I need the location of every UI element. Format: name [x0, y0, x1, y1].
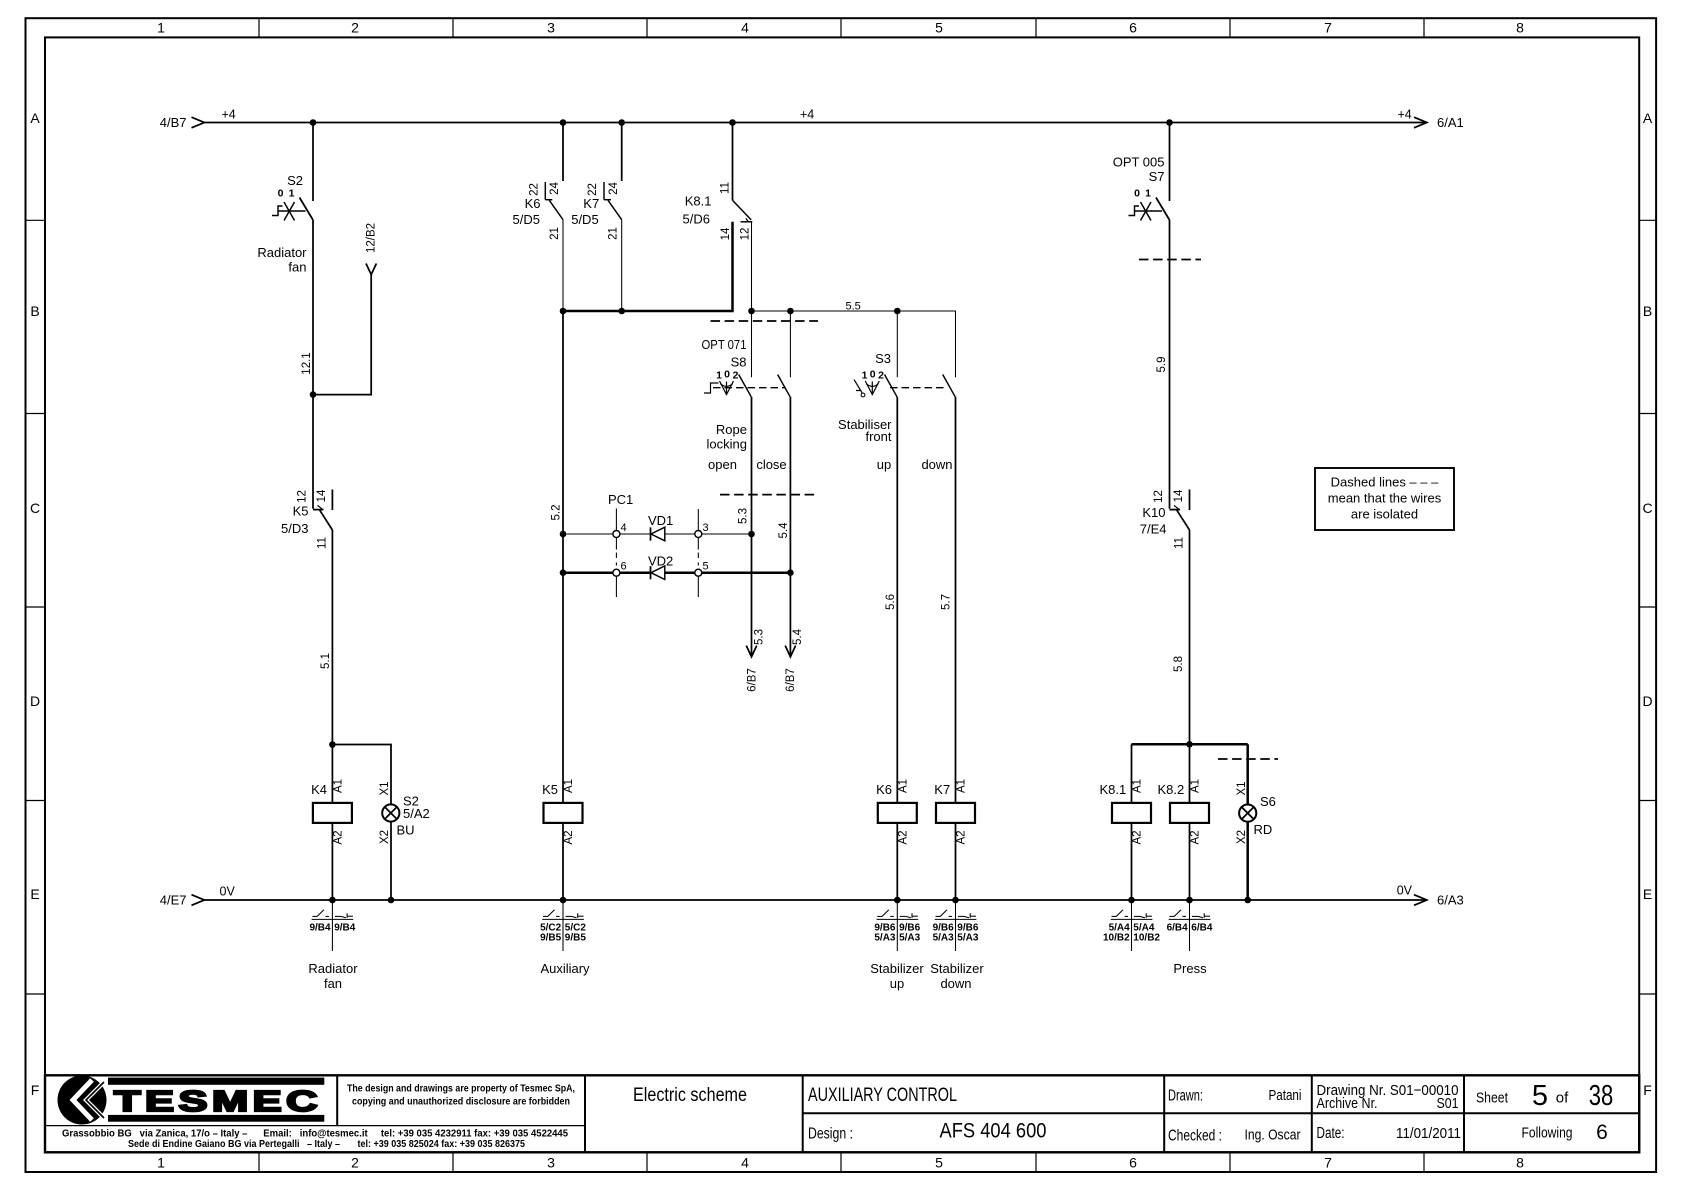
wire +4 supply rail [205, 122, 1427, 124]
junction 0V / lamp S2 [388, 897, 395, 904]
svg-text:6: 6 [1129, 20, 1137, 36]
svg-text:14: 14 [316, 489, 328, 502]
svg-text:5/A4: 5/A4 [1133, 922, 1155, 933]
svg-text:A1: A1 [1132, 779, 1144, 793]
svg-text:8: 8 [1516, 20, 1524, 36]
svg-text:7/E4: 7/E4 [1140, 522, 1167, 537]
svg-text:22: 22 [529, 183, 541, 196]
svg-text:7: 7 [1324, 1155, 1332, 1171]
svg-text:A1: A1 [897, 779, 909, 793]
svg-text:close: close [756, 457, 786, 472]
diode VD1 [651, 527, 665, 541]
wire branch to lamp S2 [332, 745, 391, 805]
svg-text:Sede di Endine Gaiano BG via P: Sede di Endine Gaiano BG via Pertegalli … [128, 1138, 525, 1150]
svg-text:4: 4 [741, 1155, 749, 1171]
junction VD1 row / net 5.3 [748, 531, 755, 538]
svg-text:2: 2 [878, 370, 884, 382]
wire K5 contact to K4 coil (net 5.1) [331, 530, 333, 745]
svg-text:0: 0 [724, 369, 730, 381]
junction 0V / K8.1 [1128, 897, 1135, 904]
svg-text:TESMEC: TESMEC [114, 1086, 322, 1118]
wire to sheet 12/B2 [313, 275, 371, 395]
junction +4 / K7 [618, 119, 625, 126]
wire +4 to contact K8.1 pin 11 [732, 123, 734, 201]
svg-text:12: 12 [297, 490, 309, 503]
wire K8.2 to 0V [1189, 823, 1191, 900]
wire branch to K8.1 [1131, 744, 1133, 803]
svg-text:down: down [921, 457, 952, 472]
PC1 terminal 5 [695, 569, 702, 597]
svg-text:9/B6: 9/B6 [957, 922, 979, 933]
PC1 terminal 4 [613, 509, 620, 566]
svg-text:A2: A2 [897, 830, 909, 844]
svg-text:Drawn:: Drawn: [1168, 1088, 1203, 1105]
wire S3 pole 2 to K7 coil (net 5.7) [955, 397, 957, 803]
svg-text:up: up [890, 976, 904, 991]
wire K8.1 pin 14 to K6/K7/PC1 (thick net) [563, 222, 733, 311]
wire S8 pole 2 to 6/B7 (net 5.4) [789, 397, 791, 657]
svg-text:5.7: 5.7 [941, 594, 953, 610]
junction 0V / K5 [560, 897, 567, 904]
svg-text:6/A3: 6/A3 [1437, 893, 1464, 908]
svg-text:2: 2 [351, 1155, 359, 1171]
svg-text:Auxiliary: Auxiliary [540, 961, 590, 976]
svg-text:9/B6: 9/B6 [933, 922, 955, 933]
svg-text:9/B6: 9/B6 [874, 922, 896, 933]
junction +4 / K6 [560, 119, 567, 126]
svg-text:5/D3: 5/D3 [281, 521, 308, 536]
svg-text:5.4: 5.4 [778, 522, 790, 539]
Tesmec logo [58, 1076, 325, 1125]
dashed isolation line (above S6) [1218, 758, 1278, 760]
wire to K4 coil [331, 745, 333, 803]
svg-text:5.4: 5.4 [792, 628, 804, 645]
switch S7 (press option, cam selector) [1129, 198, 1170, 221]
svg-text:5/C2: 5/C2 [540, 922, 562, 933]
svg-text:1: 1 [157, 20, 165, 36]
svg-text:locking: locking [707, 437, 747, 452]
contact K5 (12-14-11, NC shown) ref 5/D3 [313, 490, 332, 531]
wire K6 pin 21 to bus [562, 220, 564, 311]
svg-text:The design and drawings are pr: The design and drawings are property of … [347, 1083, 575, 1095]
junction bus 5.5 / S8 pole 1 [748, 308, 755, 315]
svg-text:BU: BU [397, 823, 415, 838]
svg-text:1: 1 [862, 370, 868, 382]
wire S8 pole 1 to 6/B7 (net 5.3) [751, 397, 753, 657]
svg-text:1: 1 [157, 1155, 165, 1171]
wire K7 to 0V [955, 823, 957, 900]
svg-text:6: 6 [1596, 1121, 1608, 1144]
wire VD1 row (PC1 4-3) [566, 533, 751, 535]
svg-text:0: 0 [870, 369, 876, 381]
svg-text:11: 11 [719, 182, 731, 194]
junction S2 branch / 12B2 [310, 391, 317, 398]
wire +4 to switch S2 [312, 123, 314, 202]
svg-text:Rope: Rope [716, 422, 747, 437]
svg-text:5/D5: 5/D5 [571, 212, 598, 227]
svg-text:Electric scheme: Electric scheme [633, 1085, 747, 1106]
svg-text:Radiator: Radiator [257, 245, 307, 260]
svg-text:K8.2: K8.2 [1157, 782, 1184, 797]
svg-text:K4: K4 [311, 782, 327, 797]
K6 contact cross-references [874, 900, 920, 951]
svg-text:K6: K6 [876, 782, 892, 797]
svg-text:10/B2: 10/B2 [1103, 933, 1130, 944]
wire lamp S2 to 0V [390, 822, 392, 900]
svg-text:38: 38 [1589, 1080, 1614, 1112]
svg-text:A1: A1 [956, 779, 968, 793]
svg-text:Press: Press [1173, 961, 1207, 976]
switch S8 (rope locking, 2 poles) [704, 311, 790, 397]
svg-text:0V: 0V [220, 885, 236, 899]
wire K5 to 0V [562, 823, 564, 900]
PC1 terminal 3 [695, 509, 702, 566]
svg-text:AFS 404 600: AFS 404 600 [940, 1120, 1047, 1143]
arrow to 6/A3 [1414, 895, 1427, 906]
svg-text:copying and unauthorized discl: copying and unauthorized disclosure are … [352, 1096, 570, 1108]
svg-text:6/B7: 6/B7 [747, 668, 759, 692]
svg-text:11: 11 [317, 537, 329, 549]
coil K8.2 (press contactor) [1170, 803, 1209, 823]
coil K5 (auxiliary contactor) [544, 803, 583, 823]
coil K6 (stabilizer up contactor) [878, 803, 917, 823]
svg-text:5/C2: 5/C2 [565, 922, 587, 933]
svg-text:2: 2 [351, 20, 359, 36]
junction net5.2 / VD2 row [560, 569, 567, 576]
svg-text:22: 22 [587, 183, 599, 196]
svg-text:4/B7: 4/B7 [160, 115, 187, 130]
svg-text:1: 1 [716, 370, 722, 382]
svg-text:10/B2: 10/B2 [1133, 933, 1160, 944]
svg-text:K6: K6 [525, 196, 541, 211]
svg-text:Date:: Date: [1317, 1125, 1345, 1142]
svg-text:K5: K5 [542, 782, 558, 797]
svg-text:5: 5 [703, 561, 709, 573]
svg-text:5/A4: 5/A4 [1109, 922, 1131, 933]
svg-text:open: open [708, 457, 737, 472]
wire coil branch K8.1-S6 [1132, 743, 1248, 746]
svg-text:K8.1: K8.1 [685, 194, 712, 209]
svg-text:12: 12 [740, 228, 752, 241]
coil K8.1 (press contactor) [1112, 803, 1151, 823]
K8.2 contact cross-references [1167, 900, 1213, 951]
wire lamp S6 to 0V [1246, 822, 1249, 900]
svg-text:A: A [30, 110, 40, 126]
svg-text:4/E7: 4/E7 [160, 893, 187, 908]
K4 contact cross-references [309, 900, 355, 951]
svg-text:A1: A1 [1190, 779, 1202, 793]
svg-text:Patani: Patani [1269, 1087, 1302, 1104]
wire bus to K5 coil (net 5.2) [562, 311, 564, 803]
svg-text:K8.1: K8.1 [1099, 782, 1126, 797]
svg-text:11: 11 [1174, 537, 1186, 549]
svg-text:fan: fan [324, 976, 342, 991]
svg-text:0: 0 [1134, 188, 1140, 200]
junction K8 coil branch [1186, 741, 1193, 748]
svg-text:9/B4: 9/B4 [334, 922, 356, 933]
svg-text:5.3: 5.3 [754, 629, 766, 645]
wire K8.1 pin 12 to bus 5.5 [751, 222, 753, 311]
svg-text:A: A [1643, 110, 1653, 126]
svg-text:3: 3 [547, 20, 555, 36]
lamp S6 (red, press) [1239, 805, 1256, 822]
junction 0V / K4 [329, 897, 336, 904]
mechanical link S3 (dashed) [890, 387, 946, 389]
svg-text:24: 24 [608, 182, 620, 195]
svg-text:5: 5 [1532, 1080, 1548, 1112]
svg-text:VD2: VD2 [648, 554, 673, 569]
svg-text:5: 5 [935, 20, 943, 36]
wire +4 to contact K7 pin 24 [621, 123, 623, 182]
svg-text:12/B2: 12/B2 [366, 223, 378, 253]
svg-text:RD: RD [1254, 822, 1273, 837]
svg-text:A2: A2 [956, 830, 968, 844]
switch S3 (stabiliser front, 2 poles) [854, 311, 955, 397]
junction bus 5.5 / S8 pole 2 [787, 308, 794, 315]
mechanical link S8 (dashed) [713, 387, 785, 389]
svg-text:3: 3 [703, 522, 709, 534]
svg-text:Sheet: Sheet [1476, 1090, 1509, 1107]
wire S7 to contact K10 (net 5.9) [1169, 220, 1171, 509]
junction K4 / lamp S2 [329, 741, 336, 748]
svg-text:5: 5 [935, 1155, 943, 1171]
svg-text:fan: fan [288, 260, 306, 275]
wire bus 5.5 [752, 311, 956, 377]
svg-text:5.6: 5.6 [885, 594, 897, 610]
svg-text:5.5: 5.5 [846, 301, 861, 313]
svg-text:5/D5: 5/D5 [513, 212, 540, 227]
svg-text:5.9: 5.9 [1156, 357, 1168, 373]
svg-text:Stabilizer: Stabilizer [870, 961, 924, 976]
wire branch to K8.2 [1189, 744, 1191, 803]
junction 0V / K7 [952, 897, 959, 904]
coil K7 (stabilizer down contactor) [936, 803, 975, 823]
svg-text:S7: S7 [1149, 169, 1165, 184]
diode VD2 [651, 566, 665, 580]
svg-text:C: C [1642, 500, 1652, 516]
wire S2 to contact K5 (net 12.1) [312, 220, 314, 509]
junction 0V / K8.2 [1186, 897, 1193, 904]
svg-text:D: D [30, 693, 40, 709]
svg-text:21: 21 [608, 227, 620, 240]
svg-text:Following: Following [1522, 1125, 1573, 1142]
svg-text:Dashed lines – – –: Dashed lines – – – [1331, 475, 1439, 490]
svg-text:+4: +4 [222, 108, 236, 122]
svg-text:A1: A1 [333, 779, 345, 793]
svg-text:S8: S8 [731, 355, 747, 370]
svg-text:5/A3: 5/A3 [899, 933, 921, 944]
note: dashed lines mean isolated wires [1315, 468, 1454, 530]
wire +4 to contact K6 pin 24 [562, 123, 564, 182]
svg-text:B: B [30, 303, 39, 319]
svg-text:of: of [1556, 1090, 1569, 1107]
svg-text:0V: 0V [1397, 884, 1413, 898]
K8.1 contact cross-references [1103, 900, 1160, 951]
switch S2 (radiator fan, cam selector) [272, 198, 313, 221]
svg-text:6/B4: 6/B4 [1167, 922, 1189, 933]
svg-text:X1: X1 [379, 781, 391, 795]
svg-text:Archive Nr.: Archive Nr. [1317, 1095, 1378, 1112]
contact K6 (21-22-24, NC shown) ref 5/D5 [545, 182, 563, 220]
svg-text:5/D6: 5/D6 [683, 212, 710, 227]
svg-text:3: 3 [547, 1155, 555, 1171]
title block [45, 1075, 1639, 1152]
svg-text:F: F [1643, 1082, 1652, 1098]
svg-text:9/B4: 9/B4 [309, 922, 331, 933]
svg-text:OPT 071: OPT 071 [702, 337, 747, 352]
junction 0V / lamp S6 [1244, 897, 1251, 904]
lamp S2 (blue, radiator fan) [382, 804, 399, 821]
svg-text:K10: K10 [1142, 505, 1165, 520]
wire branch to lamp S6 [1246, 744, 1249, 804]
svg-text:K7: K7 [934, 782, 950, 797]
coil K4 (radiator fan contactor) [313, 803, 352, 823]
svg-text:14: 14 [1173, 489, 1185, 502]
PC1 terminal 6 [613, 569, 620, 597]
junction bus 5.5 / S3 pole 1 [894, 308, 901, 315]
svg-text:X1: X1 [1236, 781, 1248, 795]
svg-text:K7: K7 [583, 196, 599, 211]
svg-text:mean that the wires: mean that the wires [1328, 491, 1442, 506]
junction +4 / K8.1 [729, 119, 736, 126]
svg-text:12.1: 12.1 [301, 352, 313, 374]
svg-text:9/B6: 9/B6 [899, 922, 921, 933]
svg-text:E: E [1643, 886, 1652, 902]
K7 contact cross-references [933, 900, 979, 951]
svg-text:S3: S3 [875, 351, 891, 366]
svg-text:9/B5: 9/B5 [565, 933, 587, 944]
svg-text:1: 1 [1145, 188, 1151, 200]
junction +4 / S2 [310, 119, 317, 126]
svg-text:K5: K5 [293, 504, 309, 519]
svg-text:6: 6 [621, 561, 627, 573]
svg-text:Design :: Design : [808, 1126, 853, 1143]
svg-text:S2: S2 [287, 173, 303, 188]
svg-text:A1: A1 [563, 779, 575, 793]
junction +4 / S7 [1166, 119, 1173, 126]
wire 0V rail [205, 899, 1427, 901]
wire VD2 row (PC1 6-5, thick) [564, 571, 790, 574]
svg-text:A2: A2 [333, 830, 345, 844]
svg-text:A2: A2 [1190, 830, 1202, 844]
dashed isolation line (below S8) [720, 494, 818, 496]
svg-text:S01: S01 [1437, 1095, 1459, 1112]
contact K7 (21-22-24, NC shown) ref 5/D5 [604, 182, 622, 220]
svg-text:Ing. Oscar: Ing. Oscar [1245, 1127, 1301, 1144]
svg-text:5.8: 5.8 [1173, 656, 1185, 672]
svg-text:5.2: 5.2 [551, 505, 563, 521]
svg-text:are isolated: are isolated [1351, 507, 1418, 522]
svg-text:A2: A2 [1132, 830, 1144, 844]
svg-text:C: C [30, 500, 40, 516]
svg-text:14: 14 [720, 227, 732, 240]
junction net5.2 / VD1 row [560, 531, 567, 538]
wire +4 to switch S7 [1169, 123, 1171, 202]
arrow from 4/E7 [192, 895, 205, 906]
svg-text:Radiator: Radiator [308, 961, 358, 976]
svg-text:up: up [877, 457, 891, 472]
arrow 5.3 to 6/B7 [746, 646, 756, 657]
junction thick net / K6 [560, 308, 567, 315]
svg-text:1: 1 [289, 188, 295, 200]
svg-text:down: down [940, 976, 971, 991]
svg-text:5/A3: 5/A3 [933, 933, 955, 944]
dashed isolation line (below S7) [1139, 259, 1201, 261]
svg-text:A2: A2 [563, 830, 575, 844]
svg-text:0: 0 [278, 188, 284, 200]
svg-text:11/01/2011: 11/01/2011 [1396, 1125, 1461, 1142]
svg-text:front: front [865, 429, 891, 444]
svg-text:7: 7 [1324, 20, 1332, 36]
wire K4 to 0V [331, 823, 333, 900]
svg-text:5/A2: 5/A2 [403, 806, 430, 821]
svg-text:6/B4: 6/B4 [1191, 922, 1213, 933]
wire K8.1 to 0V [1131, 823, 1133, 900]
K5 contact cross-references [540, 900, 586, 951]
svg-text:+4: +4 [1398, 108, 1412, 122]
dashed isolation line (above S8) [711, 320, 819, 322]
junction thick net / K7 [618, 308, 625, 315]
junction VD2 row / net 5.4 [787, 569, 794, 576]
wire K6 to 0V [896, 823, 898, 900]
svg-text:6/A1: 6/A1 [1437, 115, 1464, 130]
junction 0V / K6 [894, 897, 901, 904]
svg-text:D: D [1642, 693, 1652, 709]
wire K10 to K8 coils (net 5.8) [1189, 530, 1191, 744]
svg-text:VD1: VD1 [648, 513, 673, 528]
svg-text:+4: +4 [800, 108, 814, 122]
svg-text:6: 6 [1129, 1155, 1137, 1171]
svg-text:21: 21 [549, 227, 561, 240]
svg-text:PC1: PC1 [608, 492, 633, 507]
svg-text:6/B7: 6/B7 [785, 668, 797, 692]
svg-text:Checked :: Checked : [1168, 1128, 1222, 1145]
svg-text:4: 4 [741, 20, 749, 36]
svg-text:Stabilizer: Stabilizer [930, 961, 984, 976]
svg-text:X2: X2 [1236, 830, 1248, 844]
svg-text:9/B5: 9/B5 [540, 933, 562, 944]
svg-text:8: 8 [1516, 1155, 1524, 1171]
svg-text:X2: X2 [379, 830, 391, 844]
svg-text:5.1: 5.1 [320, 653, 332, 669]
svg-text:24: 24 [549, 182, 561, 195]
wire S3 pole 1 to K6 coil (net 5.6) [896, 397, 898, 803]
svg-text:S6: S6 [1260, 794, 1276, 809]
svg-text:F: F [31, 1082, 40, 1098]
svg-text:12: 12 [1153, 490, 1165, 503]
contact K8.1 (11-12-14, NC shown) ref 5/D6 [733, 200, 753, 222]
svg-text:2: 2 [733, 370, 739, 382]
contact K10 (12-14-11, NC shown) ref 7/E4 [1170, 490, 1190, 531]
svg-text:5/A3: 5/A3 [874, 933, 896, 944]
arrow from 4/B7 [192, 117, 205, 128]
arrow from 12/B2 [366, 264, 376, 275]
svg-text:4: 4 [621, 522, 627, 534]
svg-text:5/A3: 5/A3 [957, 933, 979, 944]
arrow to 6/A1 [1414, 117, 1427, 128]
wire K7 pin 21 to bus [621, 220, 623, 311]
svg-text:E: E [30, 886, 39, 902]
svg-text:AUXILIARY CONTROL: AUXILIARY CONTROL [808, 1085, 957, 1106]
svg-text:5.3: 5.3 [738, 508, 750, 524]
svg-text:B: B [1643, 303, 1652, 319]
arrow 5.4 to 6/B7 [785, 646, 795, 657]
svg-text:OPT 005: OPT 005 [1113, 155, 1165, 170]
